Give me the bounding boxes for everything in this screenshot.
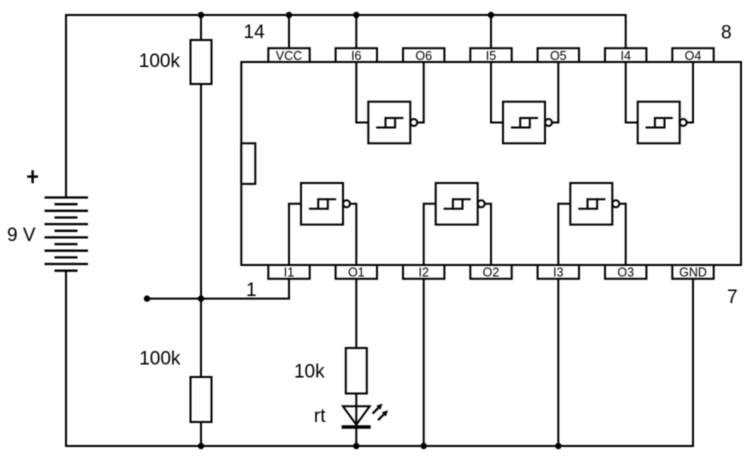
- LED D1 light arrow 1: [373, 404, 383, 414]
- LED D1 anode triangle: [343, 406, 370, 425]
- wire gate U1B output to O2: [485, 204, 491, 265]
- svg-text:I3: I3: [553, 266, 563, 280]
- svg-text:O2: O2: [483, 266, 500, 280]
- resistor R2 100k (bottom): [191, 377, 212, 422]
- gate U1F schmitt inverter: [368, 102, 417, 144]
- wire I3 to gate U1C input: [558, 204, 570, 265]
- battery plus sign: [27, 170, 38, 183]
- LED D1 light arrow 2: [378, 410, 388, 420]
- wire top rail from battery + to pin I4: [66, 15, 626, 198]
- node dot divider end: [144, 295, 150, 301]
- junction dot rail/VCC: [286, 12, 292, 18]
- pin box I1 (pin 1): [268, 265, 309, 280]
- junction dot bottom rail/R2: [198, 443, 204, 449]
- svg-text:O4: O4: [685, 49, 702, 63]
- wire gate U1D output to O4: [687, 62, 693, 123]
- pin box O5: [538, 48, 579, 63]
- svg-text:VCC: VCC: [276, 49, 302, 63]
- wire VCC feed: [288, 15, 290, 48]
- junction dot bottom rail/I3: [555, 443, 561, 449]
- svg-text:10k: 10k: [294, 362, 325, 383]
- wire R3 through LED to bottom rail: [355, 394, 357, 447]
- wire from top rail to resistor R1: [200, 15, 202, 40]
- junction dot rail/R1: [198, 12, 204, 18]
- junction dot bottom rail/LED: [353, 443, 359, 449]
- gate U1C schmitt inverter: [570, 183, 619, 225]
- wire I6 to gate U1F input: [356, 62, 368, 123]
- svg-text:1: 1: [246, 280, 257, 301]
- wire I4 to gate U1D input: [626, 62, 638, 123]
- wire bottom rail from battery - to GND pin: [66, 271, 693, 446]
- wire I6 feed: [355, 15, 357, 48]
- wire from R1 to divider node: [200, 84, 202, 299]
- wire from R2 to bottom rail: [200, 422, 202, 446]
- svg-text:O6: O6: [415, 49, 432, 63]
- pin box O3: [605, 265, 646, 280]
- pin box GND (pin 7): [672, 265, 713, 280]
- svg-text:GND: GND: [679, 266, 707, 280]
- wire gate U1C output to O3: [619, 204, 625, 265]
- wire I2 to bottom rail: [423, 279, 425, 446]
- junction dot divider/R2: [198, 295, 204, 301]
- junction dot bottom rail/I2: [421, 443, 427, 449]
- svg-text:I4: I4: [620, 49, 630, 63]
- svg-text:I6: I6: [351, 49, 361, 63]
- wire I2 to gate U1B input: [424, 204, 436, 265]
- wire divider node to pin I1: [147, 279, 289, 299]
- IC U1 74HC14 body: [241, 62, 741, 265]
- pin box I3: [538, 265, 579, 280]
- junction dot rail/I6: [353, 12, 359, 18]
- svg-text:O5: O5: [550, 49, 567, 63]
- pin box I2: [403, 265, 444, 280]
- svg-text:I5: I5: [486, 49, 496, 63]
- wire gate U1F output to O6: [417, 62, 423, 123]
- gate U1E schmitt inverter: [503, 102, 552, 144]
- pin box O2: [470, 265, 511, 280]
- svg-text:I1: I1: [284, 266, 294, 280]
- wire I5 feed: [490, 15, 492, 48]
- pin box O4: [672, 48, 713, 63]
- svg-text:I2: I2: [418, 266, 428, 280]
- wire I1 to gate U1A input: [289, 204, 301, 265]
- battery B1 9V: [45, 198, 89, 271]
- pin box VCC (pin 14): [268, 48, 309, 63]
- svg-text:7: 7: [727, 287, 738, 308]
- svg-text:O1: O1: [348, 266, 365, 280]
- svg-text:9 V: 9 V: [7, 225, 36, 246]
- svg-text:O3: O3: [617, 266, 634, 280]
- LED D1 cathode bar: [342, 425, 371, 428]
- wire O1 to resistor R3: [355, 279, 357, 348]
- pin box I6: [336, 48, 377, 63]
- wire gate U1E output to O5: [552, 62, 558, 123]
- junction dot rail/I5: [488, 12, 494, 18]
- resistor R3 10k: [346, 348, 367, 394]
- pin box I4: [605, 48, 646, 63]
- wire gate U1A output to O1: [350, 204, 356, 265]
- wire I5 to gate U1E input: [491, 62, 503, 123]
- gate U1B schmitt inverter: [436, 183, 485, 225]
- gate U1D schmitt inverter: [638, 102, 687, 144]
- pin box O1: [336, 265, 377, 280]
- resistor R1 100k (top): [191, 40, 212, 84]
- gate U1A schmitt inverter: [301, 183, 350, 225]
- svg-text:8: 8: [721, 23, 732, 44]
- wire from divider node to resistor R2: [200, 299, 202, 377]
- svg-text:100k: 100k: [139, 51, 181, 72]
- svg-text:100k: 100k: [139, 349, 181, 370]
- wire I3 to bottom rail: [557, 279, 559, 446]
- svg-text:rt: rt: [314, 406, 326, 427]
- pin box I5: [470, 48, 511, 63]
- svg-text:14: 14: [244, 22, 266, 43]
- pin box O6: [403, 48, 444, 63]
- IC notch mark: [241, 143, 255, 184]
